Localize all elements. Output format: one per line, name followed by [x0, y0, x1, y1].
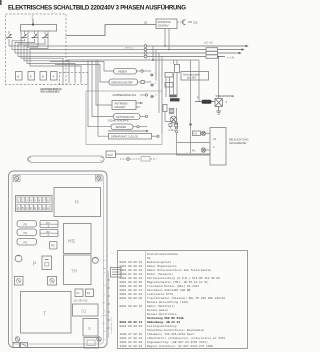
- label HUBBEGRENZUNG: [113, 93, 148, 97]
- svg-text:Gegenwaertig: (AB 997 94 3791: Gegenwaertig: (AB 997 94 3791 3781): [147, 340, 208, 344]
- lamp feeder terminals: [175, 108, 177, 133]
- svg-text:Feilungsanleitung: Feilungsanleitung: [147, 324, 177, 328]
- screw bottom-right: [97, 337, 101, 341]
- relay HEBEN: [114, 69, 152, 75]
- fuse PG2: [17, 229, 37, 236]
- wire main rail: [66, 59, 199, 61]
- relay DREHSCHALTER: [109, 79, 151, 85]
- svg-text:D: D: [30, 206, 32, 210]
- node L1 terminal: [144, 45, 147, 48]
- bus line N with fuse F: [147, 55, 234, 60]
- transformer T: [21, 292, 72, 334]
- svg-text:0001 00 00 01: 0001 00 00 01: [120, 261, 143, 264]
- svg-text:P.1: P.1: [192, 149, 196, 153]
- svg-text:Trennwand Relais (REL) ID-1441: Trennwand Relais (REL) ID-1441: [147, 284, 199, 288]
- svg-text:Drehstromsteckdose: Drehstromsteckdose: [147, 252, 178, 256]
- switch S1: [73, 304, 99, 316]
- svg-text:A: A: [18, 206, 20, 210]
- relay H: [54, 188, 101, 217]
- panel inner: [12, 175, 104, 345]
- svg-text:Magnetschalter (MS): IB 55-10: Magnetschalter (MS): IB 55-10 14 51.: [147, 280, 210, 284]
- svg-text:21: 21: [155, 83, 157, 85]
- cable connector symbol: [120, 157, 157, 162]
- svg-text:0001 00 00 04: 0001 00 00 04: [120, 277, 143, 280]
- coil K4 dark: [170, 95, 177, 98]
- wire to lamp box: [116, 153, 211, 155]
- svg-text:HUBBEGRENZUNG: HUBBEGRENZUNG: [113, 93, 137, 97]
- pendant switch body S0: [21, 15, 57, 32]
- wire supply drops: [165, 29, 169, 50]
- lamp H1: [201, 131, 210, 135]
- svg-text:0001 00 00 02: 0001 00 00 02: [120, 265, 143, 268]
- svg-text:Motor (Siemens): Motor (Siemens): [147, 272, 173, 276]
- terminal strip X3: [16, 196, 53, 212]
- svg-text:auf 13A: auf 13A: [187, 76, 196, 80]
- svg-text:220/240V: 220/240V: [158, 23, 169, 27]
- svg-text:PS: PS: [51, 244, 55, 248]
- contact S3: [32, 34, 38, 39]
- bus line L3 with fuse F: [147, 51, 242, 55]
- svg-text:0001 00 00 10: 0001 00 00 10: [120, 305, 143, 308]
- fuse PS: [50, 242, 58, 250]
- fuse PG3: [17, 239, 37, 246]
- wire stubs contacts to switch body: [9, 31, 45, 34]
- wire supply feed: [66, 25, 156, 36]
- wire feeder HEBEN: [50, 62, 114, 72]
- svg-text:S1: S1: [81, 309, 87, 314]
- resistor R1: [175, 65, 180, 73]
- arrow mark: [108, 130, 146, 132]
- svg-text:(Siemens) T26 206-0254 Spez.: (Siemens) T26 206-0254 Spez.: [147, 332, 196, 336]
- terminal box B: [16, 72, 23, 81]
- resistor R3 above motor: [169, 108, 174, 113]
- pendant control dashed enclosure: [6, 14, 67, 85]
- svg-text:SENKEN: SENKEN: [116, 125, 127, 129]
- svg-text:Kabel Motoranschluss 4mm Teile: Kabel Motoranschluss 4mm Teilerkasten: [147, 268, 211, 272]
- svg-text:PG: PG: [24, 222, 28, 226]
- fuse PV: [40, 221, 58, 229]
- wire feeder DREHSCHALTER: [55, 65, 109, 83]
- svg-text:0001 00 00 07: 0001 00 00 07: [120, 289, 143, 292]
- svg-text:(WAHLWEISE): (WAHLWEISE): [229, 141, 246, 145]
- note box Schutzschalter: [181, 72, 209, 81]
- svg-text:PG: PG: [24, 231, 28, 235]
- gland bottom right: [84, 338, 99, 349]
- svg-text:220 380 415: 220 380 415: [74, 300, 89, 303]
- svg-text:G: G: [43, 206, 45, 210]
- svg-text:1002 04 05 00: 1002 04 05 00: [120, 341, 143, 344]
- node L2 terminal: [144, 48, 147, 51]
- switch S: [83, 319, 98, 337]
- relay KETTENRAUM: [114, 114, 148, 120]
- contact S4: [42, 34, 48, 39]
- fuse PG1: [17, 221, 37, 228]
- contact S2: [21, 34, 27, 39]
- terminal box E: [28, 72, 35, 81]
- wire to lamp box: [177, 133, 211, 155]
- svg-text:0001 00 00 05: 0001 00 00 05: [120, 281, 143, 284]
- svg-text:BELEUCHTUNG: BELEUCHTUNG: [229, 138, 249, 142]
- contact K3: [151, 95, 155, 97]
- svg-text:O-I: O-I: [194, 132, 198, 136]
- svg-text:C E A: C E A: [169, 128, 176, 132]
- relay HS: [64, 224, 92, 254]
- svg-text:HEBEN: HEBEN: [118, 70, 127, 74]
- screw top-right: [96, 175, 103, 181]
- svg-text:EBV3-6 >: EBV3-6 >: [125, 47, 135, 50]
- svg-text:P2: P2: [47, 230, 51, 234]
- relay DREHPUNKTE: [109, 134, 160, 140]
- svg-text:0001 00 00 08: 0001 00 00 08: [120, 293, 143, 296]
- svg-text:Ersatzteil Nr. 3791: Ersatzteil Nr. 3791: [110, 316, 113, 333]
- svg-text:C: C: [26, 206, 28, 210]
- node L3 terminal: [144, 52, 147, 55]
- transformer relay TR: [64, 255, 92, 285]
- svg-text:PV: PV: [47, 221, 51, 225]
- svg-text:DREHSCHALTER: DREHSCHALTER: [112, 80, 133, 84]
- svg-text:0001 00 00 16: 0001 00 00 16: [120, 325, 143, 328]
- wire feeder SENKEN: [88, 60, 111, 127]
- screw bottom-left: [15, 337, 19, 341]
- screw top-left: [14, 176, 21, 182]
- svg-text:Steckdose 220/240V 10A DB: Steckdose 220/240V 10A DB: [147, 288, 191, 292]
- bus line L2 with fuse F: [147, 48, 245, 52]
- contact K1: [151, 73, 174, 78]
- wire feeder ANTRIEBS: [96, 60, 112, 105]
- reference designators margin: [101, 252, 114, 349]
- svg-text:H: H: [47, 206, 49, 210]
- svg-text:11: 11: [155, 73, 157, 75]
- svg-text:Relais Wellrelais: Relais Wellrelais: [147, 312, 177, 316]
- gland bottom 1: [13, 343, 20, 348]
- svg-text:S: S: [88, 326, 91, 331]
- svg-text:S1/2: S1/2: [108, 153, 114, 157]
- svg-text:0001 00 00 09: 0001 00 00 09: [120, 297, 143, 300]
- switch S5: [193, 131, 201, 136]
- wire feeder KETTENRAUM: [92, 60, 114, 117]
- svg-text:Leitplatte S7?A: Leitplatte S7?A: [147, 292, 173, 296]
- svg-text:Hebel Magnetspule: Hebel Magnetspule: [147, 264, 177, 268]
- svg-text:Abdeckung: AB 23 44: Abdeckung: AB 23 44: [147, 320, 180, 324]
- svg-text:(—) N: (—) N: [227, 56, 234, 60]
- svg-text:T: T: [43, 312, 46, 318]
- lamp box: [210, 128, 226, 166]
- svg-text:3100 43 00 04: 3100 43 00 04: [120, 345, 143, 348]
- contact K2: [151, 83, 174, 88]
- svg-text:220: 220: [193, 21, 198, 25]
- socket fuse F5 dark: [195, 96, 216, 104]
- svg-text:1002 27 00 04: 1002 27 00 04: [120, 337, 143, 340]
- fuse F3: [15, 277, 24, 286]
- components cluster: [155, 63, 172, 97]
- svg-text:✕C ✕C: ✕C ✕C: [204, 41, 213, 45]
- svg-text:1: 1: [170, 63, 171, 65]
- wire drop to socket: [218, 57, 220, 99]
- fuse P2: [40, 230, 58, 238]
- wire bundle pendant to bus: [9, 39, 144, 57]
- component P box: [42, 256, 52, 270]
- svg-text:KETTENRAUM: KETTENRAUM: [116, 115, 134, 119]
- coil ANTRIEBS-MAGNET: [112, 101, 143, 110]
- svg-text:ANSCHLUSS KLEMME 1-7: ANSCHLUSS KLEMME 1-7: [40, 90, 61, 94]
- svg-text:PG: PG: [24, 240, 28, 244]
- svg-text:(Reparatur) (zubehoeren) (unte: (Reparatur) (zubehoeren) (unterseite) an…: [147, 336, 225, 340]
- parts table rows: [120, 252, 226, 348]
- svg-text:0001 00 00 03: 0001 00 00 03: [120, 269, 143, 272]
- svg-text:B: B: [18, 75, 20, 79]
- svg-text:DREHPUNKT. 3-(2) (3): DREHPUNKT. 3-(2) (3): [111, 135, 138, 139]
- gland bottom 2: [21, 343, 28, 348]
- supply box NETZTEIL: [156, 19, 177, 29]
- ground: [216, 107, 221, 115]
- corner mark: [0, 0, 2, 5]
- bus line L1: [147, 45, 249, 48]
- node N terminal: [144, 55, 147, 58]
- svg-text:0001 06 06 14: 0001 06 06 14: [120, 321, 143, 324]
- svg-text:P.13: P.13: [101, 314, 107, 317]
- wire bundle to connector: [21, 31, 81, 84]
- svg-text:B: B: [22, 206, 24, 210]
- svg-text:Transformator (Siemens) SEL 55: Transformator (Siemens) SEL 55 205 380 2…: [147, 296, 225, 300]
- junction node: [189, 123, 191, 125]
- table divider: [145, 251, 147, 349]
- junction box small: [111, 268, 122, 278]
- cover outline: [27, 156, 104, 163]
- svg-text:0100 07 00 01: 0100 07 00 01: [120, 273, 143, 276]
- wire drops right: [191, 60, 200, 153]
- svg-text:ANTRIEBS-: ANTRIEBS-: [115, 101, 129, 105]
- plug symbol: [177, 20, 198, 25]
- svg-text:(Z): (Z): [144, 21, 147, 25]
- junction: [152, 59, 154, 61]
- svg-text:Bedienungsteil: Bedienungsteil: [147, 260, 172, 264]
- svg-text:MAGNET: MAGNET: [115, 105, 127, 109]
- panel outer: [9, 171, 108, 348]
- switch box S1/2: [106, 151, 116, 158]
- wire verticals cluster: [166, 60, 177, 98]
- svg-text:Sicherung 600 MA 534G: Sicherung 600 MA 534G: [147, 316, 184, 320]
- svg-text:E: E: [34, 206, 36, 210]
- svg-text:A: A: [53, 75, 55, 79]
- terminal letters: [18, 75, 55, 79]
- resistor R2: [163, 105, 167, 112]
- svg-text:E: E: [30, 75, 32, 79]
- svg-text:S1: S1: [147, 257, 151, 260]
- cable gland right: [92, 257, 98, 263]
- svg-text:ELEKTRISCHES SCHALTBILD 220/24: ELEKTRISCHES SCHALTBILD 220/240V 3 PHASE…: [8, 5, 186, 12]
- svg-text:STECKDOSE: STECKDOSE: [216, 94, 235, 98]
- wire feeder DREHPUNKTE: [98, 60, 109, 136]
- contact S1: [6, 34, 12, 39]
- svg-text:Wagner Anschluss: S1 607 2141-: Wagner Anschluss: S1 607 2141-274 1386: [147, 344, 213, 348]
- lamp H2: [192, 148, 210, 153]
- cable gland left: [15, 255, 22, 262]
- svg-text:31: 31: [155, 95, 157, 97]
- svg-text:F.: F.: [197, 96, 199, 100]
- parts table frame: [118, 251, 248, 349]
- svg-text:Relais Heben: Relais Heben: [147, 308, 168, 312]
- svg-text:Kabel (Netzteil): Kabel (Netzteil): [147, 304, 175, 308]
- connector dashed box X1: [60, 73, 89, 85]
- motor M1: [169, 116, 178, 132]
- wire bus taps: [153, 46, 162, 134]
- fuse F4: [48, 277, 57, 286]
- svg-text:H: H: [75, 200, 79, 206]
- svg-text:B: B: [42, 75, 44, 79]
- svg-text:Relais Beleuchtung (120): Relais Beleuchtung (120): [147, 300, 189, 304]
- fuse F1: [75, 289, 83, 297]
- svg-text:SCHALTKNOPFE: SCHALTKNOPFE: [108, 119, 129, 123]
- relay SENKEN: [111, 124, 147, 130]
- terminal box A: [51, 72, 58, 81]
- svg-text:HS: HS: [68, 239, 76, 245]
- svg-text:0001 00 00 06: 0001 00 00 06: [120, 285, 143, 288]
- svg-text:Schlussanleitung (A.S.B.) S13: Schlussanleitung (A.S.B.) S13 OP 112 AP …: [147, 276, 220, 280]
- fuse F2: [86, 289, 94, 297]
- svg-text:TR: TR: [71, 269, 78, 274]
- socket X2: [215, 99, 228, 107]
- svg-text:Schaltbau Einzelteile: Bestimm: Schaltbau Einzelteile: Bestimmten: [147, 328, 205, 332]
- wire: [165, 112, 173, 122]
- fold line with ticks: [108, 271, 114, 338]
- terminal box B2: [40, 72, 47, 81]
- relay enclosure: [86, 91, 162, 145]
- svg-text:1000 27 00 10: 1000 27 00 10: [120, 333, 143, 336]
